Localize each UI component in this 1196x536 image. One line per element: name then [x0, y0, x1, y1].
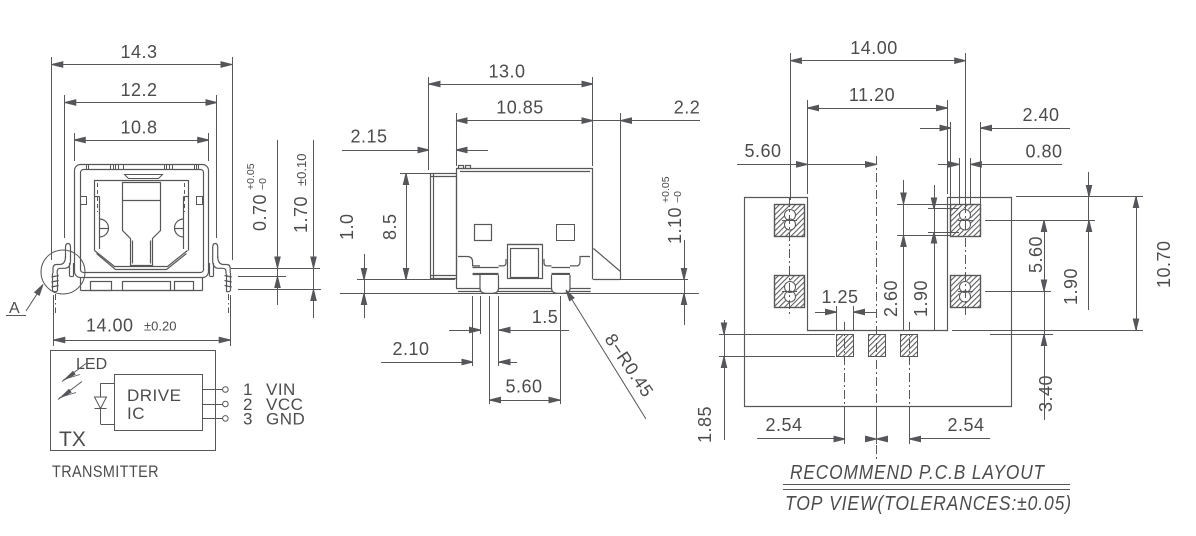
side right leg — [593, 248, 621, 280]
left pin centerline — [55, 294, 57, 313]
dim 1.0 — [337, 213, 367, 318]
wire pin 2 — [202, 401, 228, 407]
dim 13.0 — [429, 62, 594, 171]
dim 0.70 +0.05/-0 — [245, 140, 280, 305]
svg-text:TRANSMITTER: TRANSMITTER — [52, 462, 159, 481]
title recommend pcb layout — [783, 462, 1072, 515]
side bottom reliefs — [458, 257, 590, 275]
svg-text:1.25: 1.25 — [821, 287, 858, 307]
svg-text:1.0: 1.0 — [337, 213, 357, 240]
pcb top line — [357, 279, 688, 281]
svg-text:10.70: 10.70 — [1154, 240, 1174, 288]
svg-text:14.3: 14.3 — [120, 42, 157, 62]
svg-text:5.60: 5.60 — [1026, 236, 1046, 273]
side foot left — [480, 275, 499, 293]
dim 2.10 — [381, 339, 517, 365]
dim 2.54 right — [866, 415, 991, 442]
smt pad 1 — [837, 335, 854, 357]
centerline bottom row — [782, 291, 973, 293]
dim 2.54 left — [757, 408, 910, 444]
dim 10.70 — [952, 197, 1174, 331]
leader 8-R0.45 — [564, 289, 658, 419]
svg-text:2.60: 2.60 — [881, 280, 901, 317]
right leg tab — [210, 244, 232, 292]
svg-text:2.54: 2.54 — [947, 415, 984, 435]
svg-text:−0: −0 — [257, 178, 269, 190]
wire LED to IC bottom — [101, 424, 115, 426]
svg-text:1.70: 1.70 — [291, 196, 311, 233]
dim 1.90 right — [1061, 172, 1092, 310]
dim 1.90 mid — [911, 185, 959, 330]
svg-text:2.54: 2.54 — [765, 415, 802, 435]
pcb bottom line — [340, 293, 699, 295]
wire LED to IC top — [101, 383, 115, 385]
centerline left pads — [789, 198, 791, 316]
dim 0.80 — [938, 142, 1063, 205]
leader A — [6, 283, 45, 317]
dim 1.85 — [695, 320, 835, 443]
svg-text:14.00: 14.00 — [86, 316, 134, 336]
svg-text:10.8: 10.8 — [120, 118, 157, 138]
centerline top row — [782, 220, 973, 222]
cavity corner dashes — [98, 183, 185, 212]
wire pin 3 — [202, 416, 228, 422]
svg-text:1.5: 1.5 — [532, 307, 559, 327]
key plug shape — [123, 183, 161, 266]
svg-text:11.20: 11.20 — [849, 85, 895, 105]
svg-text:2.10: 2.10 — [392, 339, 429, 359]
svg-text:+0.05: +0.05 — [245, 163, 257, 190]
dim 2.40 — [920, 105, 1070, 204]
svg-text:TX: TX — [59, 428, 86, 451]
cavity outline — [94, 180, 189, 270]
svg-text:2.40: 2.40 — [1022, 105, 1059, 125]
svg-text:+0.05: +0.05 — [660, 176, 672, 203]
side pegs — [475, 225, 492, 241]
detail circle A — [41, 250, 85, 294]
pcb outline — [745, 198, 1012, 407]
svg-text:±0.20: ±0.20 — [144, 319, 176, 334]
dim 1.70 +-0.10 — [291, 140, 316, 318]
svg-text:8−R0.45: 8−R0.45 — [601, 330, 658, 401]
svg-text:1.10: 1.10 — [665, 207, 685, 244]
svg-text:2.15: 2.15 — [350, 127, 387, 147]
front shell outer — [75, 165, 209, 278]
dim 10.85 — [456, 98, 593, 167]
side bottom extension lines — [473, 296, 561, 404]
shell top ticks — [87, 164, 199, 170]
svg-text:12.2: 12.2 — [120, 80, 157, 100]
wire pin 1 — [202, 387, 228, 393]
svg-text:±0.10: ±0.10 — [294, 154, 309, 186]
dim 5.60 right — [985, 220, 1095, 292]
svg-text:DRIVE: DRIVE — [127, 386, 181, 405]
svg-text:8.5: 8.5 — [380, 213, 400, 240]
pin labels — [243, 380, 305, 429]
wall notch left — [81, 197, 87, 205]
dim 14.3 — [52, 42, 233, 260]
svg-text:14.00: 14.00 — [850, 38, 898, 58]
dim 1.10 +0.05/-0 — [660, 176, 687, 325]
dim 12.2 — [65, 80, 218, 238]
svg-text:5.60: 5.60 — [505, 377, 542, 397]
side body outline — [456, 166, 593, 292]
dim 1.5 — [449, 307, 569, 333]
pad top-left — [775, 205, 805, 237]
centerline smt pads — [845, 156, 910, 462]
extension lines right pins — [231, 269, 321, 290]
drive IC box — [115, 375, 203, 431]
dim 10.8 — [74, 118, 208, 162]
svg-text:IC: IC — [127, 404, 145, 423]
dim 2.15 — [342, 127, 488, 153]
wall notch right — [197, 197, 203, 205]
dim 11.20 — [808, 85, 948, 194]
svg-text:TOP VIEW(TOLERANCES:±0.05): TOP VIEW(TOLERANCES:±0.05) — [785, 493, 1072, 515]
svg-text:13.0: 13.0 — [488, 62, 525, 82]
right pin centerline — [228, 294, 230, 313]
pad top-right — [951, 205, 981, 237]
dim 5.60 top — [737, 141, 877, 167]
LED light arrow 1 — [62, 364, 86, 382]
svg-text:1.90: 1.90 — [911, 280, 931, 317]
svg-text:A: A — [9, 300, 20, 317]
lens strip — [125, 175, 163, 179]
svg-text:10.85: 10.85 — [496, 98, 544, 118]
dim 3.40 — [990, 292, 1056, 421]
svg-text:3: 3 — [243, 410, 253, 429]
svg-text:GND: GND — [266, 410, 305, 429]
dim 14.00 +-0.20 — [54, 295, 231, 346]
svg-text:−0: −0 — [672, 191, 684, 203]
svg-text:0.80: 0.80 — [1025, 142, 1062, 162]
dim 1.25 — [815, 287, 876, 330]
LED diode symbol — [95, 383, 107, 424]
pad bottom-right — [951, 276, 981, 308]
svg-text:LED: LED — [76, 356, 107, 373]
dim 5.60 bottom — [490, 377, 561, 403]
svg-text:RECOMMEND P.C.B LAYOUT: RECOMMEND P.C.B LAYOUT — [790, 462, 1046, 484]
svg-text:1.90: 1.90 — [1061, 268, 1081, 305]
centerline right pads — [965, 204, 967, 316]
svg-text:0.70: 0.70 — [250, 194, 270, 231]
pad bottom-left — [775, 276, 805, 308]
schematic box — [51, 351, 216, 451]
svg-text:3.40: 3.40 — [1036, 375, 1056, 412]
svg-text:1.85: 1.85 — [695, 406, 715, 443]
left leg tab — [52, 244, 74, 292]
side flange — [430, 174, 457, 279]
LED light arrow 2 — [58, 382, 82, 400]
dim 14.00 top — [790, 38, 965, 204]
side foot right — [552, 275, 571, 293]
svg-text:2.2: 2.2 — [674, 98, 701, 118]
dim 2.2 — [593, 98, 700, 276]
bottom standoff band — [81, 278, 203, 291]
smt pad 2 — [869, 335, 886, 357]
front shell inner — [81, 170, 204, 273]
smt pad 3 — [901, 335, 918, 357]
side center post — [507, 245, 542, 279]
svg-text:5.60: 5.60 — [744, 141, 781, 161]
dim 8.5 — [380, 174, 430, 280]
dim 2.60 — [881, 180, 951, 330]
